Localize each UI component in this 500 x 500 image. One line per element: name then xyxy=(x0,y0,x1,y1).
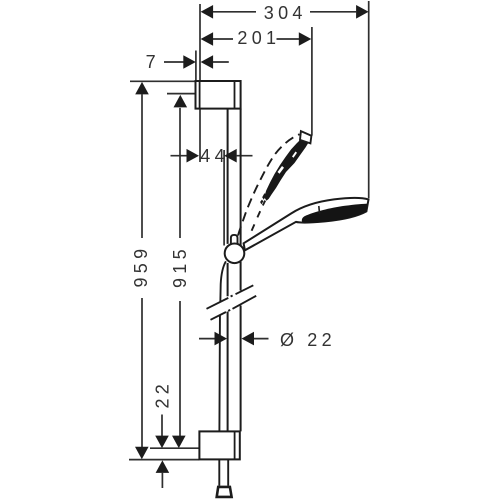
break mark diagonal upper (dash-dot) xyxy=(207,285,254,309)
extension line x=312 (201 right) xyxy=(311,27,313,136)
dimension 959 top extension line xyxy=(130,80,196,82)
dimension 304 arrow left xyxy=(201,5,214,19)
solid hand shower body xyxy=(244,198,369,250)
dimension 22 bottom extension line upper xyxy=(150,447,199,449)
dimension 7 arrow left-pointing xyxy=(201,55,214,69)
dimension 201 line xyxy=(213,38,299,40)
dimension 915 vertical line xyxy=(179,108,181,436)
svg-text:201: 201 xyxy=(237,28,280,48)
dimension 22 arrow up xyxy=(156,460,170,473)
dimension Ø22 arrow left (right-pointing) xyxy=(215,332,228,346)
svg-text:7: 7 xyxy=(146,52,160,72)
extension line x=224 (44 right) xyxy=(223,150,225,246)
dimension 915 arrow top xyxy=(174,95,188,108)
top bracket inner line right xyxy=(234,80,236,108)
dimension 959 vertical line xyxy=(141,94,143,447)
dimension 22 bottom extension line lower xyxy=(129,459,199,461)
svg-text:22: 22 xyxy=(153,380,173,409)
solid hand shower spray face band xyxy=(302,204,368,223)
dimension 915 arrow bottom xyxy=(172,436,186,449)
rail left edge xyxy=(227,109,229,432)
dashed hand shower tip cap xyxy=(300,131,311,143)
dimension 304 arrow right xyxy=(356,5,369,19)
dashed hand shower spray face band xyxy=(265,136,310,201)
svg-text:304: 304 xyxy=(264,3,307,23)
extension line x=369 (304 right) xyxy=(368,1,370,198)
hose cone end cap xyxy=(217,487,232,497)
dimension 304 line xyxy=(213,11,356,13)
rail right edge xyxy=(240,109,242,432)
dimension 201 arrow right xyxy=(299,32,312,46)
dimension 959 arrow top xyxy=(135,82,149,95)
dashed hand shower right edge dashes xyxy=(252,201,266,231)
extension line bracket-left x=195.9 above bracket xyxy=(195,51,197,82)
svg-text:Ø: Ø xyxy=(280,330,298,350)
dimension 959 arrow bottom xyxy=(135,447,149,460)
svg-text:22: 22 xyxy=(307,330,336,350)
dimension 22 arrow down xyxy=(155,436,169,449)
svg-text:959: 959 xyxy=(131,245,151,288)
dimension Ø22 line xyxy=(199,338,269,340)
dimension 7 line xyxy=(164,61,229,63)
top bracket xyxy=(196,81,241,109)
dimension 44 arrow right (left-pointing) xyxy=(224,149,237,163)
dimension Ø22 arrow right (left-pointing) xyxy=(242,332,255,346)
top bracket inner line left xyxy=(199,80,201,108)
bottom bracket inner line xyxy=(234,431,236,459)
dashed hand shower left edge xyxy=(238,134,300,235)
hose below bottom bracket xyxy=(219,459,228,485)
bottom bracket xyxy=(199,431,239,459)
dimension 915 top extension line xyxy=(167,93,195,95)
solid hand shower button tick xyxy=(318,206,321,214)
hose left edge xyxy=(219,261,226,431)
svg-text:44: 44 xyxy=(200,146,229,166)
break mark diagonal lower (dash-dot) xyxy=(211,296,257,320)
dimension 201 arrow left xyxy=(201,32,214,46)
dimension 44 line xyxy=(171,155,253,157)
extension line wall x=200 xyxy=(199,4,201,162)
holder knob circle xyxy=(225,244,245,264)
dimension 22 tail lines xyxy=(161,415,163,489)
dashed band white notches xyxy=(278,152,298,174)
holder clamp stub xyxy=(231,235,238,247)
svg-text:915: 915 xyxy=(170,245,190,288)
dimension 44 arrow left (right-pointing) xyxy=(187,149,200,163)
dashed band lower speckles xyxy=(260,193,266,204)
dimension 7 arrow right-pointing xyxy=(183,55,196,69)
